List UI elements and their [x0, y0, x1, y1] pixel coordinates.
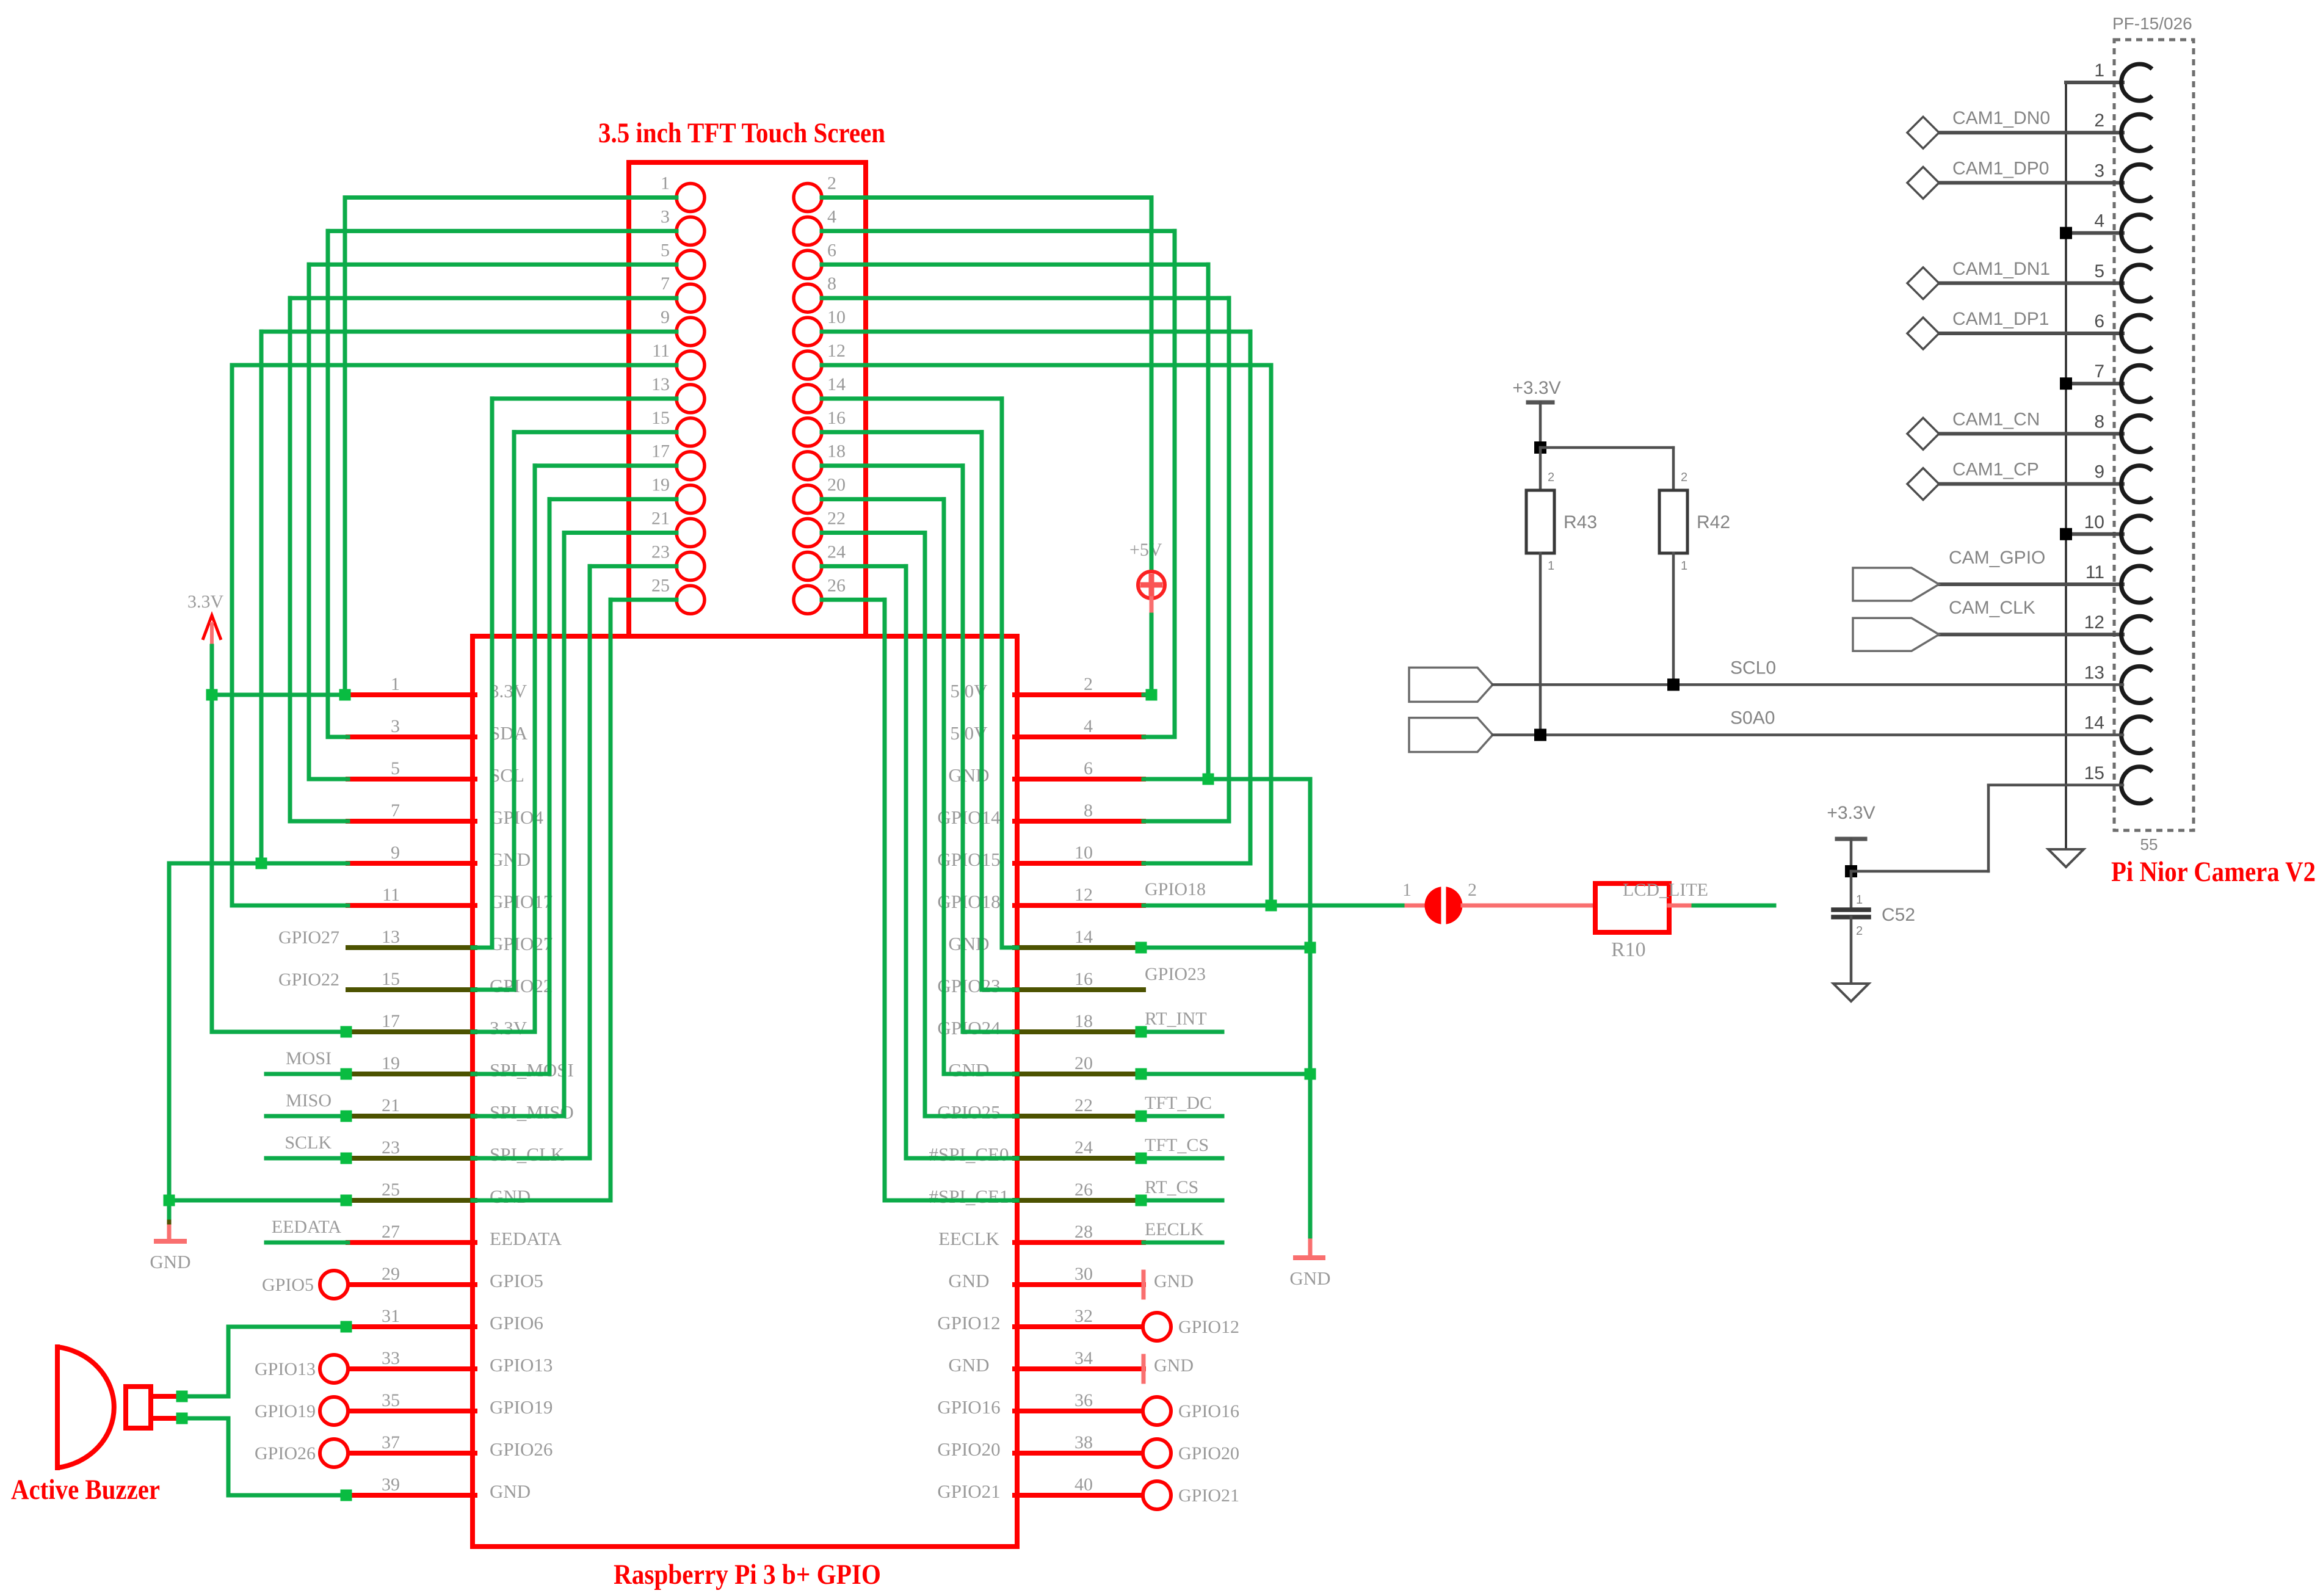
svg-text:GPIO24: GPIO24 — [937, 1017, 1001, 1039]
svg-text:8: 8 — [2094, 412, 2104, 432]
svg-text:Active Buzzer: Active Buzzer — [11, 1474, 160, 1506]
svg-text:22: 22 — [827, 509, 846, 529]
svg-text:8: 8 — [827, 274, 836, 294]
svg-text:26: 26 — [1075, 1180, 1093, 1200]
svg-text:6: 6 — [827, 240, 836, 260]
svg-text:GPIO5: GPIO5 — [262, 1275, 314, 1295]
svg-text:25: 25 — [651, 575, 670, 595]
svg-text:GPIO26: GPIO26 — [490, 1438, 553, 1460]
svg-text:GPIO21: GPIO21 — [937, 1481, 1000, 1502]
svg-text:PF-15/026: PF-15/026 — [2112, 14, 2192, 33]
svg-text:EECLK: EECLK — [1145, 1219, 1204, 1239]
svg-text:2: 2 — [2094, 111, 2104, 131]
svg-text:18: 18 — [1075, 1011, 1093, 1031]
svg-text:10: 10 — [1075, 843, 1093, 863]
svg-text:GPIO15: GPIO15 — [937, 849, 1000, 870]
svg-text:40: 40 — [1075, 1474, 1093, 1495]
svg-text:35: 35 — [382, 1390, 400, 1410]
svg-text:1: 1 — [2094, 60, 2104, 81]
svg-text:+3.3V: +3.3V — [1512, 378, 1560, 398]
svg-text:GPIO12: GPIO12 — [1178, 1317, 1239, 1337]
svg-text:GPIO17: GPIO17 — [490, 891, 553, 912]
svg-text:1: 1 — [1402, 880, 1412, 900]
svg-text:Pi Nior Camera V2: Pi Nior Camera V2 — [2111, 856, 2316, 888]
svg-text:6: 6 — [1084, 758, 1093, 778]
svg-text:MOSI: MOSI — [286, 1048, 332, 1068]
svg-text:GPIO12: GPIO12 — [937, 1312, 1000, 1333]
svg-text:2: 2 — [1681, 471, 1687, 484]
svg-text:22: 22 — [1075, 1095, 1093, 1115]
svg-text:CAM1_DP0: CAM1_DP0 — [1952, 158, 2049, 178]
svg-text:GPIO13: GPIO13 — [490, 1354, 553, 1376]
svg-text:SPI_MISO: SPI_MISO — [490, 1101, 574, 1123]
svg-text:25: 25 — [382, 1180, 400, 1200]
svg-text:33: 33 — [382, 1348, 400, 1368]
svg-text:13: 13 — [382, 927, 400, 947]
svg-text:8: 8 — [1084, 800, 1093, 821]
svg-text:CAM1_CP: CAM1_CP — [1952, 460, 2039, 480]
svg-text:13: 13 — [651, 374, 670, 394]
svg-text:CAM1_DN1: CAM1_DN1 — [1952, 259, 2050, 279]
svg-text:CAM1_DN0: CAM1_DN0 — [1952, 108, 2050, 128]
svg-text:1: 1 — [391, 674, 400, 694]
svg-text:27: 27 — [382, 1222, 400, 1242]
svg-text:GPIO19: GPIO19 — [255, 1401, 316, 1421]
svg-text:3: 3 — [391, 716, 400, 736]
svg-text:SCL0: SCL0 — [1730, 658, 1776, 678]
svg-text:20: 20 — [827, 475, 846, 495]
svg-text:3.3V: 3.3V — [490, 680, 527, 702]
svg-text:SDA: SDA — [490, 722, 528, 744]
svg-text:GPIO23: GPIO23 — [1145, 964, 1206, 984]
svg-text:GND: GND — [490, 1186, 531, 1207]
svg-text:12: 12 — [1075, 885, 1093, 905]
svg-text:31: 31 — [382, 1306, 400, 1326]
svg-text:30: 30 — [1075, 1264, 1093, 1284]
svg-text:21: 21 — [382, 1095, 400, 1115]
svg-text:12: 12 — [827, 341, 846, 361]
svg-text:R42: R42 — [1697, 512, 1730, 532]
svg-text:GND: GND — [1154, 1271, 1194, 1291]
svg-text:RT_CS: RT_CS — [1145, 1177, 1198, 1197]
svg-text:2: 2 — [827, 173, 836, 194]
svg-text:11: 11 — [2086, 562, 2104, 582]
svg-text:CAM1_CN: CAM1_CN — [1952, 409, 2040, 429]
svg-text:GPIO22: GPIO22 — [490, 975, 553, 996]
svg-text:16: 16 — [827, 408, 846, 428]
svg-text:C52: C52 — [1882, 905, 1915, 925]
svg-text:9: 9 — [2094, 462, 2104, 482]
svg-text:1: 1 — [1856, 893, 1863, 907]
svg-text:LCD_LITE: LCD_LITE — [1623, 880, 1708, 900]
svg-text:28: 28 — [1075, 1222, 1093, 1242]
svg-text:SCL: SCL — [490, 764, 524, 786]
svg-text:RT_INT: RT_INT — [1145, 1009, 1207, 1029]
svg-text:9: 9 — [391, 843, 400, 863]
svg-text:3: 3 — [661, 206, 670, 227]
svg-text:3: 3 — [2094, 161, 2104, 181]
svg-text:15: 15 — [382, 969, 400, 989]
svg-text:16: 16 — [1075, 969, 1093, 989]
svg-text:S0A0: S0A0 — [1730, 708, 1775, 728]
svg-text:24: 24 — [827, 542, 846, 562]
svg-text:R10: R10 — [1611, 938, 1646, 961]
svg-text:#SPI_CE1: #SPI_CE1 — [929, 1186, 1009, 1207]
svg-text:GND: GND — [150, 1251, 190, 1272]
svg-text:SPI_CLK: SPI_CLK — [490, 1144, 565, 1165]
svg-text:11: 11 — [652, 341, 670, 361]
svg-text:10: 10 — [827, 307, 846, 327]
svg-text:37: 37 — [382, 1432, 400, 1453]
svg-text:17: 17 — [651, 441, 670, 462]
svg-text:GPIO20: GPIO20 — [1178, 1443, 1239, 1464]
svg-text:+3.3V: +3.3V — [1827, 803, 1875, 823]
svg-text:R43: R43 — [1564, 512, 1597, 532]
svg-text:Raspberry Pi 3 b+ GPIO: Raspberry Pi 3 b+ GPIO — [614, 1559, 881, 1591]
svg-text:19: 19 — [651, 475, 670, 495]
svg-text:2: 2 — [1084, 674, 1093, 694]
svg-text:GPIO26: GPIO26 — [255, 1443, 316, 1464]
svg-text:MISO: MISO — [286, 1090, 332, 1111]
svg-text:GND: GND — [948, 1270, 989, 1291]
svg-text:14: 14 — [1075, 927, 1093, 947]
svg-text:2: 2 — [1548, 471, 1554, 484]
svg-text:EEDATA: EEDATA — [490, 1228, 562, 1249]
svg-text:19: 19 — [382, 1053, 400, 1073]
svg-text:SPI_MOSI: SPI_MOSI — [490, 1059, 574, 1081]
svg-text:GPIO20: GPIO20 — [937, 1438, 1000, 1460]
svg-text:13: 13 — [2084, 662, 2104, 683]
svg-text:#SPI_CE0: #SPI_CE0 — [929, 1144, 1009, 1165]
svg-text:5: 5 — [391, 758, 400, 778]
svg-text:18: 18 — [827, 441, 846, 462]
svg-text:7: 7 — [2094, 361, 2104, 382]
svg-text:GPIO27: GPIO27 — [490, 933, 553, 954]
svg-text:GPIO18: GPIO18 — [937, 891, 1000, 912]
svg-text:GPIO21: GPIO21 — [1178, 1485, 1239, 1506]
svg-text:TFT_CS: TFT_CS — [1145, 1135, 1209, 1155]
svg-text:5: 5 — [661, 240, 670, 260]
svg-text:CAM_GPIO: CAM_GPIO — [1949, 548, 2045, 568]
svg-text:GND: GND — [948, 1059, 989, 1081]
svg-text:17: 17 — [382, 1011, 400, 1031]
svg-text:GPIO13: GPIO13 — [255, 1359, 316, 1379]
svg-text:GND: GND — [490, 1481, 531, 1502]
svg-text:3.5 inch TFT Touch Screen: 3.5 inch TFT Touch Screen — [598, 117, 885, 149]
svg-text:23: 23 — [651, 542, 670, 562]
svg-text:24: 24 — [1075, 1137, 1093, 1158]
svg-text:29: 29 — [382, 1264, 400, 1284]
svg-text:4: 4 — [1084, 716, 1093, 736]
svg-text:CAM_CLK: CAM_CLK — [1949, 598, 2035, 618]
svg-text:15: 15 — [651, 408, 670, 428]
svg-text:9: 9 — [661, 307, 670, 327]
svg-text:GND: GND — [948, 1354, 989, 1376]
svg-text:6: 6 — [2094, 311, 2104, 332]
svg-text:TFT_DC: TFT_DC — [1145, 1093, 1212, 1113]
svg-text:7: 7 — [661, 274, 670, 294]
svg-text:39: 39 — [382, 1474, 400, 1495]
svg-text:38: 38 — [1075, 1432, 1093, 1453]
svg-text:3.3V: 3.3V — [490, 1017, 527, 1039]
svg-text:2: 2 — [1468, 880, 1477, 900]
svg-text:15: 15 — [2084, 763, 2104, 783]
svg-text:14: 14 — [2084, 713, 2104, 733]
svg-text:2: 2 — [1856, 924, 1863, 938]
svg-text:14: 14 — [827, 374, 846, 394]
svg-text:1: 1 — [661, 173, 670, 194]
svg-text:1: 1 — [1548, 559, 1554, 573]
svg-text:GPIO27: GPIO27 — [278, 927, 339, 948]
svg-text:4: 4 — [2094, 211, 2104, 231]
svg-text:EECLK: EECLK — [938, 1228, 999, 1249]
svg-text:12: 12 — [2084, 612, 2104, 633]
svg-text:32: 32 — [1075, 1306, 1093, 1326]
svg-text:10: 10 — [2084, 512, 2104, 532]
svg-text:1: 1 — [1681, 559, 1687, 573]
svg-text:CAM1_DP1: CAM1_DP1 — [1952, 309, 2049, 329]
svg-text:23: 23 — [382, 1137, 400, 1158]
svg-text:GPIO25: GPIO25 — [937, 1101, 1000, 1123]
svg-text:GPIO6: GPIO6 — [490, 1312, 543, 1333]
svg-text:GPIO23: GPIO23 — [937, 975, 1000, 996]
svg-text:GPIO16: GPIO16 — [937, 1396, 1000, 1418]
svg-text:3.3V: 3.3V — [187, 592, 224, 612]
svg-text:GND: GND — [1154, 1355, 1194, 1376]
svg-text:26: 26 — [827, 575, 846, 595]
svg-text:11: 11 — [382, 885, 400, 905]
svg-text:+5V: +5V — [1129, 540, 1162, 560]
svg-text:7: 7 — [391, 800, 400, 821]
svg-text:GPIO14: GPIO14 — [937, 807, 1001, 828]
svg-text:55: 55 — [2140, 835, 2158, 854]
svg-text:GND: GND — [1289, 1268, 1330, 1289]
svg-text:4: 4 — [827, 206, 836, 227]
svg-text:SCLK: SCLK — [284, 1133, 332, 1153]
svg-text:GPIO18: GPIO18 — [1145, 879, 1206, 899]
svg-text:GPIO5: GPIO5 — [490, 1270, 543, 1291]
svg-text:GND: GND — [490, 849, 531, 870]
svg-text:EEDATA: EEDATA — [272, 1217, 342, 1237]
svg-text:5: 5 — [2094, 261, 2104, 281]
svg-text:34: 34 — [1075, 1348, 1093, 1368]
svg-text:21: 21 — [651, 509, 670, 529]
svg-text:GPIO16: GPIO16 — [1178, 1401, 1239, 1421]
svg-text:GPIO22: GPIO22 — [278, 970, 339, 990]
svg-text:20: 20 — [1075, 1053, 1093, 1073]
svg-text:36: 36 — [1075, 1390, 1093, 1410]
svg-text:GPIO19: GPIO19 — [490, 1396, 553, 1418]
